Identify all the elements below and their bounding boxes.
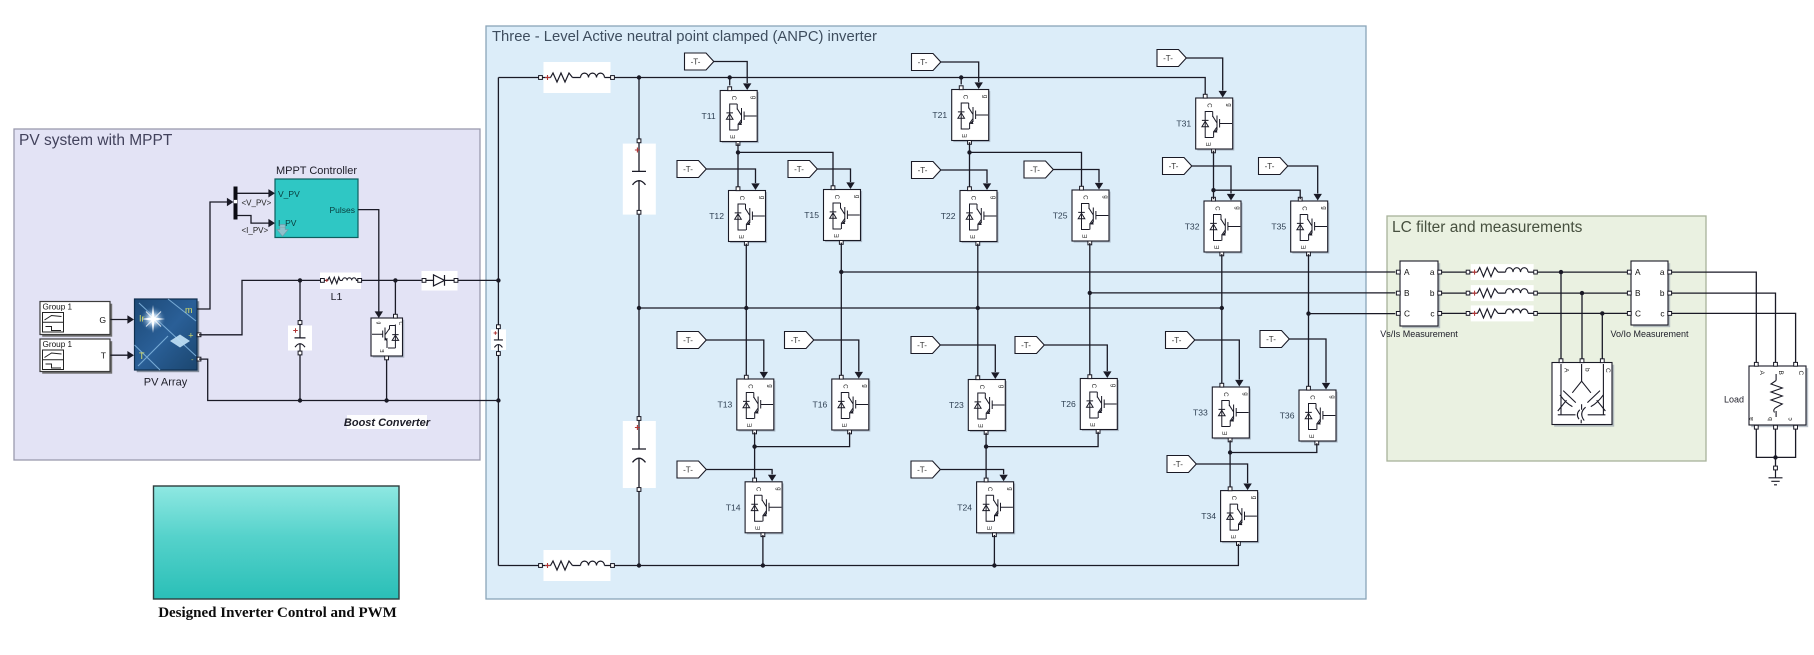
svg-text:MPPT Controller: MPPT Controller bbox=[276, 165, 357, 177]
wire T32 E to neutral to T33 C bbox=[1221, 254, 1223, 383]
svg-text:Load: Load bbox=[1724, 395, 1744, 405]
neutral bus bbox=[639, 307, 1222, 309]
svg-text:B: B bbox=[1404, 288, 1410, 298]
node T13 E join bbox=[752, 444, 756, 448]
node capacitor tap b bbox=[1580, 291, 1584, 295]
node boost IGBT collector bbox=[393, 278, 397, 282]
node T14 E rail bbox=[761, 563, 765, 567]
diode D1 bbox=[422, 271, 458, 291]
svg-text:Group 1: Group 1 bbox=[43, 303, 73, 312]
wire gate T11 bbox=[714, 62, 752, 91]
From tag for T16 bbox=[785, 332, 814, 349]
IGBT T31 bbox=[1196, 94, 1235, 153]
wire bus selector I_PV to MPPT bbox=[238, 216, 276, 228]
From tag for T32 bbox=[1163, 158, 1192, 175]
wire MPPT Pulses to boost IGBT gate bbox=[358, 210, 383, 318]
svg-text:B: B bbox=[1777, 371, 1784, 375]
svg-text:b: b bbox=[1430, 288, 1435, 298]
wire L1 to diode bbox=[361, 279, 422, 281]
IGBT T33 bbox=[1212, 383, 1251, 442]
wire PV m to bus selector bbox=[197, 198, 234, 309]
Load block bbox=[1748, 362, 1808, 429]
phase B bus bbox=[1090, 292, 1396, 294]
From tag for T26 bbox=[1015, 337, 1044, 354]
wire Vo/Io a to Load A bbox=[1671, 272, 1756, 362]
svg-text:T21: T21 bbox=[932, 110, 947, 120]
From tag for T23 bbox=[911, 337, 940, 354]
svg-text:b: b bbox=[1660, 288, 1665, 298]
wire Vo/Io b to Load B bbox=[1671, 293, 1775, 362]
svg-text:T26: T26 bbox=[1061, 399, 1076, 409]
svg-text:a: a bbox=[1660, 267, 1665, 277]
node boost cap top bbox=[298, 278, 302, 282]
node T11 emitter junction bbox=[736, 150, 740, 154]
phase A bus bbox=[841, 271, 1395, 273]
wire gate T21 bbox=[941, 62, 983, 89]
wire down to capacitor bank b bbox=[1581, 293, 1583, 359]
svg-text:PV system with MPPT: PV system with MPPT bbox=[19, 132, 173, 149]
capacitor C_pv branch bbox=[288, 280, 312, 400]
DC link capacitor C2 bbox=[623, 417, 656, 492]
From tag for T31 bbox=[1157, 50, 1186, 67]
wire boost IGBT emitter to bottom rail bbox=[386, 360, 388, 401]
area box: PV system with MPPT bbox=[14, 129, 480, 460]
svg-text:T11: T11 bbox=[702, 111, 716, 121]
IGBT T32 bbox=[1204, 197, 1243, 256]
svg-text:C: C bbox=[397, 322, 403, 326]
node rail / T11 collector bbox=[728, 75, 732, 79]
svg-text:Ir: Ir bbox=[139, 314, 145, 324]
svg-text:+: + bbox=[188, 331, 193, 341]
wire gate T16 bbox=[814, 340, 863, 379]
IGBT T13 bbox=[737, 375, 776, 434]
wire diode to DC link bbox=[458, 279, 499, 281]
wire T25 E phase B vertical bbox=[1089, 243, 1091, 375]
From tag for T34 bbox=[1167, 456, 1196, 473]
wire T34 E to bottom rail bbox=[1237, 544, 1239, 566]
svg-text:T16: T16 bbox=[812, 400, 827, 410]
inductor L1 branch bbox=[320, 273, 362, 290]
wire gate T26 bbox=[1044, 345, 1111, 378]
From tag for T25 bbox=[1024, 161, 1053, 178]
node T21 emitter junction bbox=[967, 150, 971, 154]
wire T to PV T bbox=[111, 351, 135, 359]
IGBT T26 bbox=[1080, 375, 1119, 434]
svg-text:A: A bbox=[1563, 368, 1570, 373]
wire filter a to Vo/Io bbox=[1537, 271, 1627, 273]
svg-text:L1: L1 bbox=[331, 291, 343, 303]
wire gate T31 bbox=[1186, 58, 1227, 98]
wire Load outputs join bbox=[1756, 429, 1795, 457]
node DC midpoint bbox=[637, 306, 641, 310]
wire gate T15 bbox=[817, 169, 854, 189]
IGBT T16 bbox=[832, 375, 871, 434]
PV Array block bbox=[135, 299, 201, 372]
wire gate T13 bbox=[706, 340, 768, 379]
From tag for T21 bbox=[912, 54, 941, 71]
wire T22 E to neutral to T23 C bbox=[977, 244, 979, 376]
svg-text:T35: T35 bbox=[1271, 222, 1286, 232]
Vs/Is Measurement block bbox=[1396, 261, 1441, 328]
RL branch bottom bbox=[539, 550, 615, 581]
wire T33 E / T36 E join bbox=[1230, 440, 1317, 452]
svg-text:B: B bbox=[1635, 288, 1641, 298]
wire Vs/Is a to filter bbox=[1441, 271, 1466, 273]
ground bbox=[1769, 466, 1783, 485]
node T24 E rail bbox=[992, 563, 996, 567]
IGBT T23 bbox=[968, 376, 1007, 435]
node phase C start bbox=[1306, 311, 1310, 315]
node T33 E join bbox=[1228, 450, 1232, 454]
svg-text:Designed Inverter Control and: Designed Inverter Control and PWM bbox=[158, 605, 397, 621]
svg-text:T13: T13 bbox=[717, 400, 732, 410]
Vo/Io Measurement block bbox=[1627, 261, 1671, 327]
wire T11 E to T12 C bbox=[737, 143, 739, 187]
From tag for T36 bbox=[1260, 331, 1289, 348]
wire Vo/Io c to Load C bbox=[1671, 313, 1795, 362]
wire T13 E / T16 E join bbox=[755, 432, 850, 446]
wire to ground bbox=[1775, 457, 1777, 466]
svg-text:PV Array: PV Array bbox=[144, 377, 188, 389]
From tag for T11 bbox=[685, 53, 714, 70]
signal builder block Group 1 (G) bbox=[40, 302, 112, 337]
area box: ANPC inverter bbox=[486, 26, 1366, 599]
IGBT T21 bbox=[952, 86, 991, 145]
wire rail to T21 C bbox=[960, 78, 962, 85]
svg-text:T15: T15 bbox=[804, 210, 819, 220]
svg-text:LC filter and measurements: LC filter and measurements bbox=[1392, 219, 1583, 236]
node T31 emitter junction bbox=[1211, 188, 1215, 192]
svg-text:T32: T32 bbox=[1185, 222, 1200, 232]
node DC+ at rail bbox=[496, 278, 500, 282]
wire rail to T11 C bbox=[729, 78, 731, 86]
label Boost Converter bbox=[344, 415, 431, 429]
svg-text:T12: T12 bbox=[709, 211, 724, 221]
svg-text:b: b bbox=[1767, 417, 1774, 421]
wire gate T24 bbox=[940, 470, 1008, 482]
wire junction to T15 C bbox=[738, 152, 833, 186]
svg-text:a: a bbox=[1430, 267, 1435, 277]
wire gate T35 bbox=[1288, 166, 1322, 201]
wire gate T36 bbox=[1289, 339, 1330, 390]
svg-text:A: A bbox=[1635, 267, 1641, 277]
wire collector drop bbox=[394, 280, 396, 314]
IGBT T14 bbox=[745, 478, 784, 537]
node T12 E neutral bbox=[744, 306, 748, 310]
wire T21 E to T22 C bbox=[969, 142, 971, 187]
wire T14 E to bottom rail bbox=[762, 535, 764, 566]
wire T31 E to T32 C bbox=[1213, 151, 1215, 200]
wire junction to T25 C bbox=[970, 152, 1082, 186]
wire gate T22 bbox=[941, 170, 991, 190]
signal builder block Group 1 (T) bbox=[40, 339, 112, 374]
IGBT T22 bbox=[960, 187, 999, 246]
svg-text:b: b bbox=[1584, 368, 1591, 372]
wire G to PV Ir bbox=[111, 315, 135, 323]
node phase B start bbox=[1088, 291, 1092, 295]
IGBT T11 bbox=[720, 87, 759, 146]
wire down to capacitor bank c bbox=[1601, 313, 1603, 359]
svg-text:Boost Converter: Boost Converter bbox=[344, 417, 431, 429]
svg-text:C: C bbox=[1404, 308, 1410, 318]
node capacitor tap a bbox=[1559, 270, 1563, 274]
node T22 E neutral bbox=[976, 306, 980, 310]
svg-text:T: T bbox=[101, 350, 107, 360]
RL filter branch phase c bbox=[1466, 305, 1537, 321]
RL filter branch phase a bbox=[1466, 264, 1537, 280]
wire join to T14 C bbox=[754, 447, 756, 479]
wire T23 E / T26 E join bbox=[986, 432, 1098, 447]
wire gate T23 bbox=[940, 345, 999, 379]
node capacitor tap c bbox=[1600, 311, 1604, 315]
DC rail capacitor bbox=[491, 325, 506, 356]
wire gate T14 bbox=[706, 470, 776, 482]
svg-text:T34: T34 bbox=[1201, 511, 1216, 521]
node rail bottom at DC column bbox=[637, 563, 641, 567]
node T23 E join bbox=[984, 444, 988, 448]
wire PV+ to boost top rail bbox=[199, 280, 321, 334]
wire filter b to Vo/Io bbox=[1537, 292, 1627, 294]
DC column wires bbox=[638, 78, 640, 566]
node rail / T21 collector bbox=[959, 75, 963, 79]
subsystem block: Designed Inverter Control and PWM bbox=[154, 486, 400, 599]
svg-text:A: A bbox=[1758, 371, 1765, 376]
svg-text:Pulses: Pulses bbox=[329, 205, 355, 215]
svg-text:C: C bbox=[1635, 308, 1641, 318]
From tag for T35 bbox=[1259, 158, 1288, 175]
From tag for T13 bbox=[677, 332, 706, 349]
svg-text:g: g bbox=[376, 322, 382, 325]
svg-text:T: T bbox=[139, 351, 145, 361]
From tag for T22 bbox=[912, 162, 941, 179]
node load neutral bbox=[1773, 455, 1777, 459]
svg-text:c: c bbox=[1660, 308, 1664, 318]
wire gate T34 bbox=[1196, 464, 1252, 490]
DC link capacitor C1 bbox=[623, 139, 656, 215]
wire T12 E to neutral to T13 C bbox=[745, 244, 747, 376]
svg-text:T14: T14 bbox=[726, 502, 741, 512]
IGBT T24 bbox=[977, 478, 1016, 537]
wire T35 E phase C vertical bbox=[1308, 254, 1310, 386]
wire gate T12 bbox=[706, 169, 759, 190]
svg-text:A: A bbox=[1404, 267, 1410, 277]
IGBT T25 bbox=[1072, 186, 1111, 245]
svg-text:C: C bbox=[1604, 368, 1611, 373]
svg-text:a: a bbox=[1748, 417, 1755, 421]
three-phase capacitor bank block bbox=[1552, 359, 1614, 427]
RL filter branch phase b bbox=[1466, 285, 1537, 301]
From tag for T24 bbox=[911, 461, 940, 478]
From tag for T14 bbox=[677, 461, 706, 478]
node DC- at rail bbox=[496, 398, 500, 402]
bus selector bbox=[234, 187, 238, 220]
phase C bus bbox=[1309, 313, 1396, 315]
svg-text:T23: T23 bbox=[949, 400, 964, 410]
wire filter c to Vo/Io bbox=[1537, 312, 1627, 314]
svg-text:c: c bbox=[1430, 308, 1434, 318]
svg-text:T31: T31 bbox=[1176, 119, 1191, 129]
svg-text:C: C bbox=[1797, 371, 1804, 376]
From tag for T15 bbox=[788, 161, 817, 178]
wire down to capacitor bank a bbox=[1560, 272, 1562, 359]
wire gate T33 bbox=[1195, 340, 1244, 387]
top DC rail bbox=[498, 78, 1205, 95]
wire gate T25 bbox=[1053, 170, 1103, 190]
IGBT T36 bbox=[1299, 386, 1338, 445]
From tag for T12 bbox=[677, 161, 706, 178]
IGBT T12 bbox=[729, 187, 768, 246]
svg-text:<I_PV>: <I_PV> bbox=[242, 226, 269, 235]
node rail top at DC column bbox=[637, 75, 641, 79]
boost IGBT block bbox=[371, 314, 404, 360]
wire T15 E phase A vertical bbox=[840, 243, 842, 376]
svg-text:Vo/Io Measurement: Vo/Io Measurement bbox=[1610, 329, 1689, 339]
wire gate T32 bbox=[1192, 166, 1235, 201]
IGBT T15 bbox=[824, 186, 863, 245]
From tag for T33 bbox=[1166, 332, 1195, 349]
wire join to T34 C bbox=[1229, 453, 1231, 488]
svg-text:T22: T22 bbox=[941, 211, 956, 221]
wire bus selector V_PV to MPPT bbox=[238, 189, 276, 197]
left DC rail vertical bbox=[497, 78, 499, 566]
wire junction to T35 C bbox=[1214, 190, 1301, 199]
wire PV- to bottom rail bbox=[199, 359, 498, 400]
svg-text:G: G bbox=[99, 315, 106, 325]
IGBT T35 bbox=[1291, 197, 1330, 256]
svg-text:Group 1: Group 1 bbox=[43, 340, 73, 349]
svg-text:m: m bbox=[185, 305, 193, 315]
svg-text:T33: T33 bbox=[1193, 408, 1208, 418]
svg-text:V_PV: V_PV bbox=[278, 189, 300, 199]
svg-text:T25: T25 bbox=[1053, 211, 1068, 221]
svg-text:T36: T36 bbox=[1280, 411, 1295, 421]
wire join to T24 C bbox=[985, 447, 987, 479]
wire Vs/Is b to filter bbox=[1441, 292, 1466, 294]
wire Vs/Is c to filter bbox=[1441, 312, 1466, 314]
node phase A start bbox=[839, 270, 843, 274]
svg-text:T24: T24 bbox=[957, 502, 972, 512]
wire T24 E to bottom rail bbox=[993, 535, 995, 566]
MPPT Controller block bbox=[275, 179, 358, 238]
area box: LC filter and measurements bbox=[1387, 216, 1706, 461]
bottom DC rail bbox=[498, 565, 1239, 567]
svg-text:<V_PV>: <V_PV> bbox=[242, 199, 272, 208]
svg-text:Three - Level Active neutral p: Three - Level Active neutral point clamp… bbox=[492, 29, 877, 45]
node T32 E neutral bbox=[1220, 306, 1224, 310]
RL branch top bbox=[539, 62, 615, 93]
svg-text:Vs/Is Measurement: Vs/Is Measurement bbox=[1380, 329, 1458, 339]
IGBT T34 bbox=[1221, 487, 1260, 546]
